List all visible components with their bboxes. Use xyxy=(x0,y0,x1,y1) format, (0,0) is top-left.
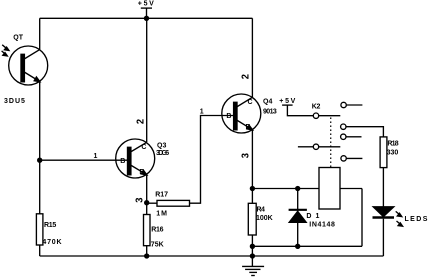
svg-text:B: B xyxy=(120,158,125,165)
svg-text:R15: R15 xyxy=(44,222,56,229)
relay throw contact 4 xyxy=(341,156,346,161)
svg-text:75K: 75K xyxy=(151,242,164,249)
relay throw contact 1 xyxy=(341,102,346,107)
phototransistor QT xyxy=(9,46,48,85)
wire R17 left lead xyxy=(147,202,157,204)
node Q3 base tap on left rail xyxy=(38,158,42,162)
svg-text:LEDS: LEDS xyxy=(405,216,428,223)
relay throw contact 2 (to R18) xyxy=(341,124,346,129)
ground xyxy=(242,266,264,275)
resistor R4 body xyxy=(248,203,256,235)
svg-text:1M: 1M xyxy=(156,210,168,217)
relay contact pole 2 xyxy=(298,146,313,148)
svg-text:C: C xyxy=(247,99,252,106)
wire left rail upper xyxy=(39,18,41,49)
svg-text:330: 330 xyxy=(387,150,399,157)
svg-text:C: C xyxy=(141,144,146,151)
power +5V top xyxy=(141,8,152,18)
transistor Q3 xyxy=(116,139,155,178)
svg-text:E: E xyxy=(139,169,144,176)
wire Q4 emitter down xyxy=(251,130,253,189)
node Q4 emitter / relay loop top xyxy=(250,187,254,191)
svg-text:470K: 470K xyxy=(42,239,62,246)
wire Q3 emitter down xyxy=(146,175,148,215)
svg-text:1: 1 xyxy=(200,109,204,116)
diode D1 xyxy=(289,189,307,247)
transistor Q4 xyxy=(222,94,261,133)
node ground rail junction xyxy=(250,254,254,258)
svg-text:100K: 100K xyxy=(256,215,273,222)
wire R15 bottom to bottom rail xyxy=(39,245,41,256)
node Q3 emitter / R17 / R16 xyxy=(145,201,149,205)
wire relay loop bottom xyxy=(252,245,362,247)
svg-text:+5V: +5V xyxy=(279,98,297,105)
svg-text:Q3: Q3 xyxy=(157,143,166,150)
svg-text:3DG6: 3DG6 xyxy=(156,150,169,157)
wire Q3 collector riser xyxy=(146,18,148,142)
relay throw contact 3 xyxy=(341,134,346,139)
relay contact pole 1 xyxy=(313,113,318,118)
wire R16 to rail xyxy=(146,246,148,256)
svg-text:9013: 9013 xyxy=(263,108,277,115)
wire relay loop top xyxy=(252,188,362,190)
LED emission arrow 1 xyxy=(396,211,402,216)
svg-text:IN4148: IN4148 xyxy=(309,222,335,229)
svg-text:1: 1 xyxy=(94,153,98,160)
relay coil K2 xyxy=(319,168,340,210)
wire R18 to LED xyxy=(382,168,384,207)
svg-text:QT: QT xyxy=(13,35,23,42)
node diode top xyxy=(296,187,300,191)
node diode bottom xyxy=(296,244,300,248)
svg-text:D1: D1 xyxy=(306,213,323,220)
wire top +5V rail xyxy=(40,17,253,19)
node +5V rail junction xyxy=(145,16,149,20)
wire Q3 base from left rail xyxy=(40,159,129,161)
resistor R4 leads xyxy=(251,189,253,204)
svg-text:3: 3 xyxy=(135,197,146,203)
node R16 rail junction xyxy=(145,254,149,258)
resistor R16 body xyxy=(144,215,151,246)
resistor R15 body xyxy=(36,214,43,245)
wire ground bottom rail xyxy=(40,255,384,257)
power +5V at relay contact xyxy=(282,105,313,116)
resistor R18 body xyxy=(380,137,387,168)
LED LEDS xyxy=(373,207,395,256)
svg-text:2: 2 xyxy=(136,118,147,124)
svg-text:K2: K2 xyxy=(312,103,321,110)
svg-text:R4: R4 xyxy=(257,206,266,213)
svg-text:2: 2 xyxy=(241,74,252,80)
resistor R17 body xyxy=(157,200,190,206)
wire R17 right lead and riser to Q4 base xyxy=(190,116,234,204)
svg-text:R17: R17 xyxy=(155,191,168,198)
relay armature dotted link xyxy=(330,118,332,168)
svg-text:E: E xyxy=(245,124,250,131)
svg-text:R16: R16 xyxy=(151,227,163,234)
svg-text:R18: R18 xyxy=(387,140,398,147)
svg-text:Q4: Q4 xyxy=(263,99,272,106)
wire left rail lower (QT emitter to R15) xyxy=(39,82,41,214)
LED emission arrow 2 xyxy=(397,221,403,226)
node loop bottom left xyxy=(250,244,254,248)
svg-text:B: B xyxy=(226,113,231,120)
wire Q4 collector riser xyxy=(251,18,253,97)
svg-text:3DU5: 3DU5 xyxy=(4,98,26,105)
wire relay loop right side xyxy=(361,189,363,247)
svg-text:3: 3 xyxy=(241,153,252,159)
svg-text:+5V: +5V xyxy=(138,1,156,8)
wire ground stem xyxy=(251,246,253,266)
light arrow 1 into QT xyxy=(2,45,9,51)
light arrow 2 into QT xyxy=(2,51,8,56)
